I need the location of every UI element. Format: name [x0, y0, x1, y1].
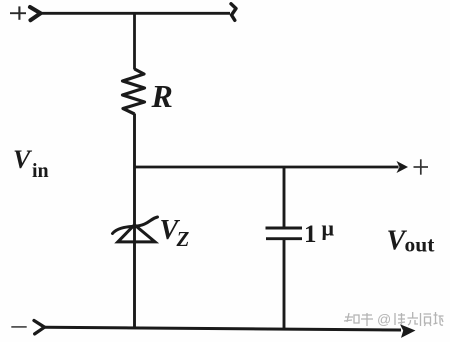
svg-text:V: V [13, 145, 33, 174]
svg-text:@: @ [377, 311, 391, 327]
svg-text:μ: μ [322, 216, 335, 241]
svg-text:R: R [151, 78, 173, 114]
svg-text:1: 1 [304, 221, 317, 248]
svg-text:out: out [405, 233, 436, 257]
svg-text:in: in [32, 160, 49, 182]
svg-text:Z: Z [176, 227, 190, 251]
